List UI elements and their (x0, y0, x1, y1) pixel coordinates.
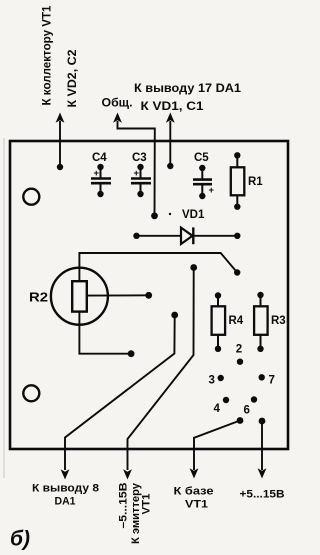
svg-text:б): б) (10, 528, 30, 551)
svg-text:7: 7 (269, 375, 275, 387)
svg-text:2: 2 (236, 344, 242, 356)
resistor R1 (231, 152, 264, 210)
pad 7 (259, 374, 275, 386)
mounting hole top-left (23, 189, 39, 205)
svg-text:К VD1, C1: К VD1, C1 (141, 101, 205, 113)
label К эмиттеру VT1 (vertical) (130, 482, 153, 544)
svg-text:R2: R2 (29, 290, 48, 305)
svg-text:К выводу 17 DA1: К выводу 17 DA1 (134, 83, 242, 95)
wire to bottom arrow 4 (+5...15В) (258, 418, 267, 479)
svg-text:VD1: VD1 (182, 209, 205, 221)
board outline (10, 141, 288, 449)
diode VD1 (133, 209, 240, 244)
svg-text:К коллектору VT1: К коллектору VT1 (42, 5, 54, 106)
resistor R4 (212, 292, 244, 352)
faint scan artifact line at left margin (3, 138, 5, 478)
svg-text:DA1: DA1 (55, 496, 76, 508)
wire from upper pad to bottom arrow 2 (-5...15В / К эмиттеру VT1) (123, 264, 197, 479)
svg-text:+5...15В: +5...15В (240, 489, 285, 501)
pad 4 (214, 397, 230, 415)
svg-text:+: + (94, 168, 100, 179)
svg-text:6: 6 (244, 405, 250, 417)
wire from R2 top to pad near VD1 (79, 253, 240, 281)
wire from R2 wiper to pad (87, 292, 152, 299)
svg-text:+: + (209, 185, 215, 196)
svg-text:3: 3 (209, 375, 215, 387)
wire to VD1,C1 arrow (166, 113, 175, 170)
wire to Общ arrow (elbow) (113, 113, 158, 220)
capacitor C4 (91, 152, 111, 197)
pad 6 (244, 396, 258, 416)
svg-text:4: 4 (214, 403, 221, 415)
svg-text:К базе: К базе (174, 486, 214, 498)
svg-text:R1: R1 (248, 176, 263, 188)
mounting hole bottom-left (23, 385, 39, 401)
svg-text:R4: R4 (229, 315, 244, 327)
wire from R2 bottom to pad (79, 312, 134, 357)
wire to bottom arrow 3 (К базе VT1) (190, 417, 244, 478)
capacitor C3 (131, 152, 151, 197)
capacitor C5 (193, 152, 215, 199)
resistor R3 (254, 292, 286, 352)
wire from mid pad to bottom arrow 1 (К выводу 8 DA1) (61, 312, 179, 480)
svg-text:–5...15В: –5...15В (118, 482, 130, 528)
svg-text:+: + (134, 168, 140, 179)
pad 2 (236, 344, 243, 365)
svg-text:VT1: VT1 (141, 494, 153, 515)
label К выводу 8 DA1 (32, 483, 99, 508)
svg-text:R3: R3 (271, 315, 286, 327)
svg-text:C3: C3 (132, 152, 147, 164)
pad 3 (209, 375, 224, 387)
svg-text:C4: C4 (92, 152, 107, 164)
svg-text:Общ.: Общ. (102, 98, 133, 110)
svg-text:К выводу 8: К выводу 8 (32, 483, 99, 495)
label К базе VT1 (174, 486, 214, 511)
wire to collector arrow (top left) (56, 113, 65, 171)
trimmer R2 (29, 268, 108, 325)
svg-text:К VD2, C2: К VD2, C2 (67, 50, 79, 108)
svg-text:C5: C5 (194, 152, 209, 164)
svg-text:VT1: VT1 (185, 499, 208, 511)
